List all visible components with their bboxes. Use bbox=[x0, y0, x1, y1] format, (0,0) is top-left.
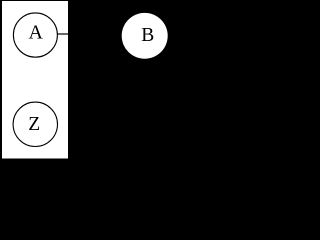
svg-text:Z: Z bbox=[28, 114, 40, 135]
svg-text:B: B bbox=[141, 25, 154, 46]
svg-text:A: A bbox=[29, 22, 44, 44]
